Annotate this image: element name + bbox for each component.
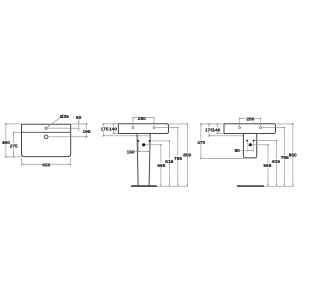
fixing bolt hole right — [253, 140, 255, 142]
470 dimension line — [200, 124, 202, 158]
bottom extension line left — [5, 156, 21, 158]
inner rim extension line left — [13, 131, 21, 133]
rim hole extension right — [262, 127, 284, 129]
label 470 — [197, 140, 205, 145]
label 565 — [157, 163, 165, 168]
615 floor arrowhead — [169, 184, 170, 186]
175 dimension line — [208, 124, 210, 136]
svg-text:280: 280 — [138, 116, 146, 122]
195 dimension line — [85, 124, 87, 137]
850 right floor arrowhead — [292, 184, 293, 186]
svg-text:175: 175 — [100, 127, 108, 133]
565 right dimension line — [267, 145, 269, 186]
floor line thin — [264, 185, 294, 187]
svg-text:275: 275 — [10, 144, 18, 150]
svg-text:195: 195 — [82, 129, 90, 135]
semi-pedestal outline — [243, 134, 256, 158]
label 650 — [42, 162, 50, 167]
rim extension line left — [103, 123, 119, 125]
850 right dimension line — [292, 124, 294, 186]
svg-text:650: 650 — [42, 162, 50, 168]
drain extension right — [252, 144, 268, 146]
svg-text:Ø35: Ø35 — [60, 114, 69, 120]
rim extension line left — [200, 123, 224, 125]
floor line thick — [131, 185, 157, 187]
850 dimension line — [186, 124, 188, 186]
label 795 right — [281, 155, 289, 160]
bolt extension right — [150, 140, 169, 142]
795 floor arrowhead — [177, 184, 178, 186]
615 dimension line — [168, 141, 170, 186]
60 dim arrowheads — [78, 122, 79, 124]
bolt extension right — [255, 140, 277, 142]
pedestal right edge — [149, 134, 150, 186]
795 right floor arrowhead — [284, 184, 285, 186]
basin outline (front view, semi-pedestal) — [224, 124, 276, 134]
label 175 — [101, 127, 108, 132]
drain dot — [249, 143, 252, 146]
label 140 — [109, 127, 116, 132]
fixing hole circle left — [239, 127, 241, 129]
basin inner rim line — [22, 131, 71, 133]
drain hole — [44, 135, 48, 139]
svg-text:795: 795 — [174, 156, 182, 162]
565 floor arrowhead — [160, 184, 161, 186]
rim top extension right — [169, 123, 188, 125]
175 dimension line — [102, 124, 104, 136]
basin bottom extension line left — [113, 132, 118, 134]
pedestal left edge — [137, 134, 138, 186]
650 dimension line — [22, 163, 71, 165]
svg-text:850: 850 — [289, 153, 297, 159]
fixing bolt hole right — [149, 140, 151, 142]
floor line thin — [157, 185, 188, 187]
leader line for diameter label — [48, 118, 60, 127]
basin outline (plan view) — [22, 124, 71, 156]
850 floor arrowhead — [187, 184, 188, 186]
650 extension lines — [21, 158, 23, 166]
label 175 right — [205, 127, 212, 132]
drain dot — [142, 143, 145, 146]
svg-text:280: 280 — [246, 117, 254, 123]
label 280 — [138, 116, 146, 121]
80 dimension line — [240, 149, 253, 151]
fixing hole circle right — [153, 127, 155, 129]
drain extension right — [145, 144, 161, 146]
basin bottom extension line left — [217, 132, 224, 134]
label 275 — [10, 144, 18, 149]
rim top extension right — [276, 123, 293, 125]
650 dim arrowheads — [68, 164, 70, 165]
150 extension lines — [137, 142, 139, 153]
basin outline (front view, pedestal) — [118, 124, 168, 134]
label 850 — [183, 152, 191, 157]
svg-text:615: 615 — [272, 159, 280, 165]
label 795 — [174, 156, 182, 161]
semi-pedestal bottom extension left — [200, 157, 244, 159]
fixing bolt hole left — [246, 140, 248, 142]
basin under-lip line — [209, 135, 244, 137]
rim extension line right — [71, 123, 88, 125]
fixing hole circle right — [260, 127, 262, 129]
svg-text:850: 850 — [183, 152, 191, 158]
140 dimension line — [216, 124, 218, 133]
460 dimension line — [5, 124, 7, 157]
faucet hole — [45, 127, 47, 129]
280 dimension line — [240, 117, 261, 119]
label 615 right — [272, 159, 280, 164]
795 dimension line — [177, 128, 179, 187]
drain extension line right — [48, 136, 88, 138]
svg-text:565: 565 — [263, 163, 271, 169]
565 right floor arrowhead — [267, 184, 268, 186]
top extension line left — [5, 123, 21, 125]
svg-text:140: 140 — [212, 127, 220, 133]
label 850 right — [289, 152, 297, 157]
svg-text:470: 470 — [197, 140, 205, 146]
140 dimension line — [113, 124, 115, 133]
svg-text:615: 615 — [165, 159, 173, 165]
label 460 — [2, 140, 10, 145]
svg-text:140: 140 — [109, 127, 117, 133]
rim hole extension right — [155, 127, 178, 129]
label 280 right — [246, 116, 254, 121]
leader arrowhead — [47, 125, 49, 127]
label 615 — [165, 159, 173, 164]
fixing hole circle left — [132, 127, 134, 129]
fixing bolt hole left — [137, 140, 139, 142]
565 dimension line — [160, 145, 162, 186]
615 right floor arrowhead — [276, 184, 277, 186]
80 extension lines — [246, 142, 248, 152]
795 right dimension line — [283, 128, 285, 187]
faucet hole extension line — [48, 127, 80, 129]
label 565 right — [263, 163, 271, 168]
60 dimension line — [78, 119, 80, 130]
280 dimension line — [133, 117, 154, 119]
275 dimension line — [13, 132, 15, 157]
label 140 right — [213, 127, 220, 132]
label 195 — [82, 129, 90, 134]
floor line thick — [237, 185, 264, 187]
svg-text:80: 80 — [235, 148, 241, 154]
615 right dimension line — [276, 141, 278, 187]
svg-text:150: 150 — [127, 149, 135, 155]
150 dimension line — [135, 150, 150, 152]
basin under-lip line — [103, 135, 150, 137]
